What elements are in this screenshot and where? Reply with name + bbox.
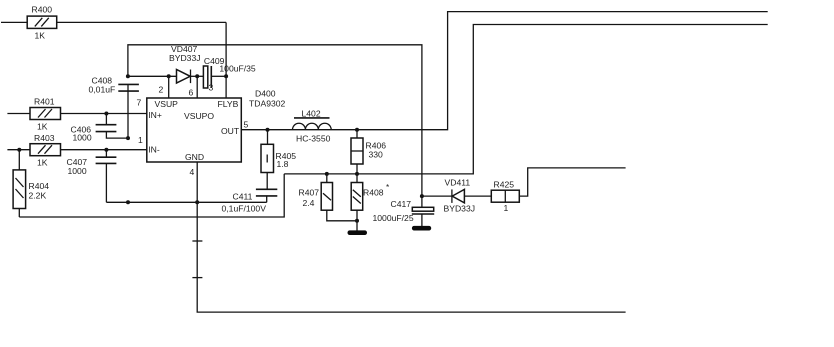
wire supply vertical x421.9 node dot xyxy=(420,194,424,198)
svg-text:HC-3550: HC-3550 xyxy=(296,134,331,144)
wire IC pin4 GND stub xyxy=(196,162,198,202)
svg-text:100uF/35: 100uF/35 xyxy=(219,64,256,74)
svg-text:7: 7 xyxy=(137,98,142,108)
svg-text:VSUPO: VSUPO xyxy=(184,111,214,121)
capacitor C406 xyxy=(71,114,129,143)
wire IC pin6 stub xyxy=(196,76,198,98)
node dot R404 tap xyxy=(17,148,21,152)
resistor R403 xyxy=(7,133,146,168)
wire riser from R400 to FLYB node xyxy=(225,22,227,76)
wire V-DY sense net y173.9 xyxy=(284,25,768,174)
svg-text:1K: 1K xyxy=(37,158,48,168)
resistor R407 xyxy=(299,174,358,221)
inductor L402 xyxy=(293,109,332,144)
svg-text:1K: 1K xyxy=(37,122,48,132)
svg-text:330: 330 xyxy=(369,150,384,160)
wire feedback rail y217 xyxy=(19,174,284,217)
ground bar under R407/R408 xyxy=(348,230,368,235)
svg-text:R407: R407 xyxy=(299,188,320,198)
svg-text:TDA9302: TDA9302 xyxy=(249,99,286,109)
svg-text:1000: 1000 xyxy=(68,166,87,176)
resistor R404 xyxy=(13,150,49,217)
capacitor C407 xyxy=(67,150,117,203)
svg-text:C411: C411 xyxy=(233,192,253,202)
wire ground net y202.3 xyxy=(106,201,266,203)
svg-text:1K: 1K xyxy=(35,31,46,41)
resistor R401 xyxy=(7,97,146,132)
resistor R405 xyxy=(261,130,296,189)
svg-text:1: 1 xyxy=(504,203,509,213)
svg-text:BYD33J: BYD33J xyxy=(444,204,476,214)
svg-text:4: 4 xyxy=(190,167,195,177)
node dot IN+ / C406 xyxy=(104,112,108,116)
svg-text:3: 3 xyxy=(209,83,214,93)
svg-text:VSUP: VSUP xyxy=(155,99,179,109)
svg-text:FLYB: FLYB xyxy=(218,99,239,109)
svg-text:L402: L402 xyxy=(302,109,321,119)
tick mark crossing 1 xyxy=(192,240,202,242)
svg-text:2: 2 xyxy=(159,85,164,95)
svg-text:R400: R400 xyxy=(32,5,53,15)
svg-text:IN-: IN- xyxy=(148,145,160,155)
resistor R408 xyxy=(351,174,390,231)
svg-text:1: 1 xyxy=(138,135,143,145)
node dot IN- / C407 xyxy=(104,148,108,152)
tick mark crossing 2 xyxy=(192,277,202,279)
wire IC pin3 stub xyxy=(225,76,227,98)
svg-text:BYD33J: BYD33J xyxy=(169,53,201,63)
svg-text:OUT: OUT xyxy=(221,126,240,136)
wire top supply rail y44.8 xyxy=(128,45,422,196)
svg-text:2.4: 2.4 xyxy=(303,198,315,208)
svg-text:0,1uF/100V: 0,1uF/100V xyxy=(222,204,267,214)
svg-text:R404: R404 xyxy=(29,181,50,191)
svg-text:0,01uF: 0,01uF xyxy=(89,85,116,95)
svg-text:IN+: IN+ xyxy=(148,110,162,120)
diode VD411 xyxy=(422,178,491,214)
svg-text:6: 6 xyxy=(189,88,194,98)
wire OUT net y129.7 xyxy=(241,12,767,130)
svg-text:R403: R403 xyxy=(34,133,55,143)
diode VD407 xyxy=(169,44,203,83)
node dots VSUP row xyxy=(126,74,130,78)
resistor R400 xyxy=(1,5,226,41)
svg-text:1.8: 1.8 xyxy=(277,159,289,169)
svg-text:1000uF/25: 1000uF/25 xyxy=(373,213,414,223)
wire IC pin2 stub xyxy=(168,76,170,98)
resistor R425 xyxy=(491,168,625,213)
wire VSUP node y76.3 xyxy=(128,75,176,77)
svg-text:GND: GND xyxy=(185,152,204,162)
svg-text:R425: R425 xyxy=(494,180,515,190)
svg-text:5: 5 xyxy=(244,120,249,130)
svg-text:R408: R408 xyxy=(363,188,384,198)
svg-text:VD411: VD411 xyxy=(445,178,471,188)
svg-text:1000: 1000 xyxy=(73,133,92,143)
svg-text:C417: C417 xyxy=(391,199,412,209)
wire ground vertical to bottom rail xyxy=(197,202,625,312)
capacitor C411 xyxy=(222,189,278,213)
op-amp U D400 TDA9302 IC box xyxy=(147,89,286,163)
capacitor C417 xyxy=(373,196,435,230)
resistor R406 xyxy=(351,130,386,174)
capacitor C408 xyxy=(89,76,139,139)
capacitor C409 xyxy=(203,56,256,88)
svg-text:2.2K: 2.2K xyxy=(29,191,47,201)
svg-text:D400: D400 xyxy=(255,89,276,99)
svg-text:R401: R401 xyxy=(34,97,55,107)
